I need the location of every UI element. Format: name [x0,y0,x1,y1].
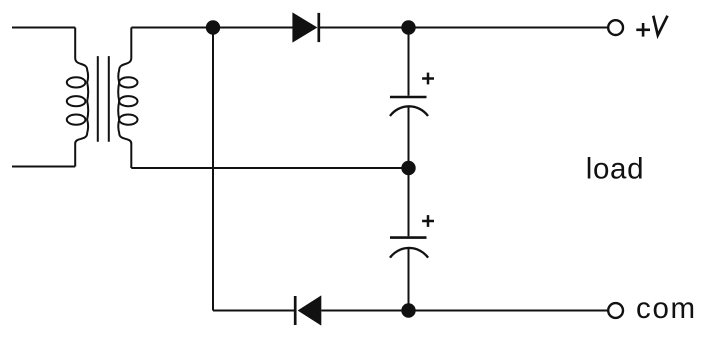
svg-text:load: load [586,152,645,185]
junction node B (top of C1) [401,20,415,34]
wire vertical branch from node A down to bottom rail [212,28,214,311]
label +V : italic V [653,16,667,36]
junction node C (middle) [401,161,415,175]
capacitor C2 (polarized) plates [390,238,428,258]
transformer T1 primary winding [67,28,88,167]
wire bottom rail: diode D2 to com terminal [321,310,608,312]
junction node A [206,20,220,34]
capacitor C2 plus sign [422,215,434,227]
label +V : plus sign [636,23,650,37]
capacitor C1 (polarized) plates [390,97,428,116]
transformer T1 core [98,56,109,142]
diode D2 (points left) [295,295,321,325]
transformer T1 secondary winding [118,28,137,169]
wire primary bottom lead [12,166,75,168]
wire top rail: diode D1 to +V terminal [320,27,608,29]
capacitor C1 bottom lead [408,107,410,169]
diode D1 (points right) [292,12,318,42]
terminal +V [608,20,623,35]
capacitor C1 plus sign [422,73,434,85]
capacitor C2 top lead [408,168,410,236]
svg-text:com: com [636,292,697,325]
junction node D (bottom) [401,303,415,317]
wire top rail: secondary to diode D1 [131,27,292,29]
label com [636,292,697,325]
label load [586,152,645,185]
wire middle rail: secondary bottom to node C [131,167,408,169]
wire primary top lead [12,27,75,29]
capacitor C2 bottom lead [408,248,410,311]
wire bottom rail: corner to diode D2 [213,310,294,312]
capacitor C1 top lead [408,28,410,96]
terminal com [608,303,623,318]
